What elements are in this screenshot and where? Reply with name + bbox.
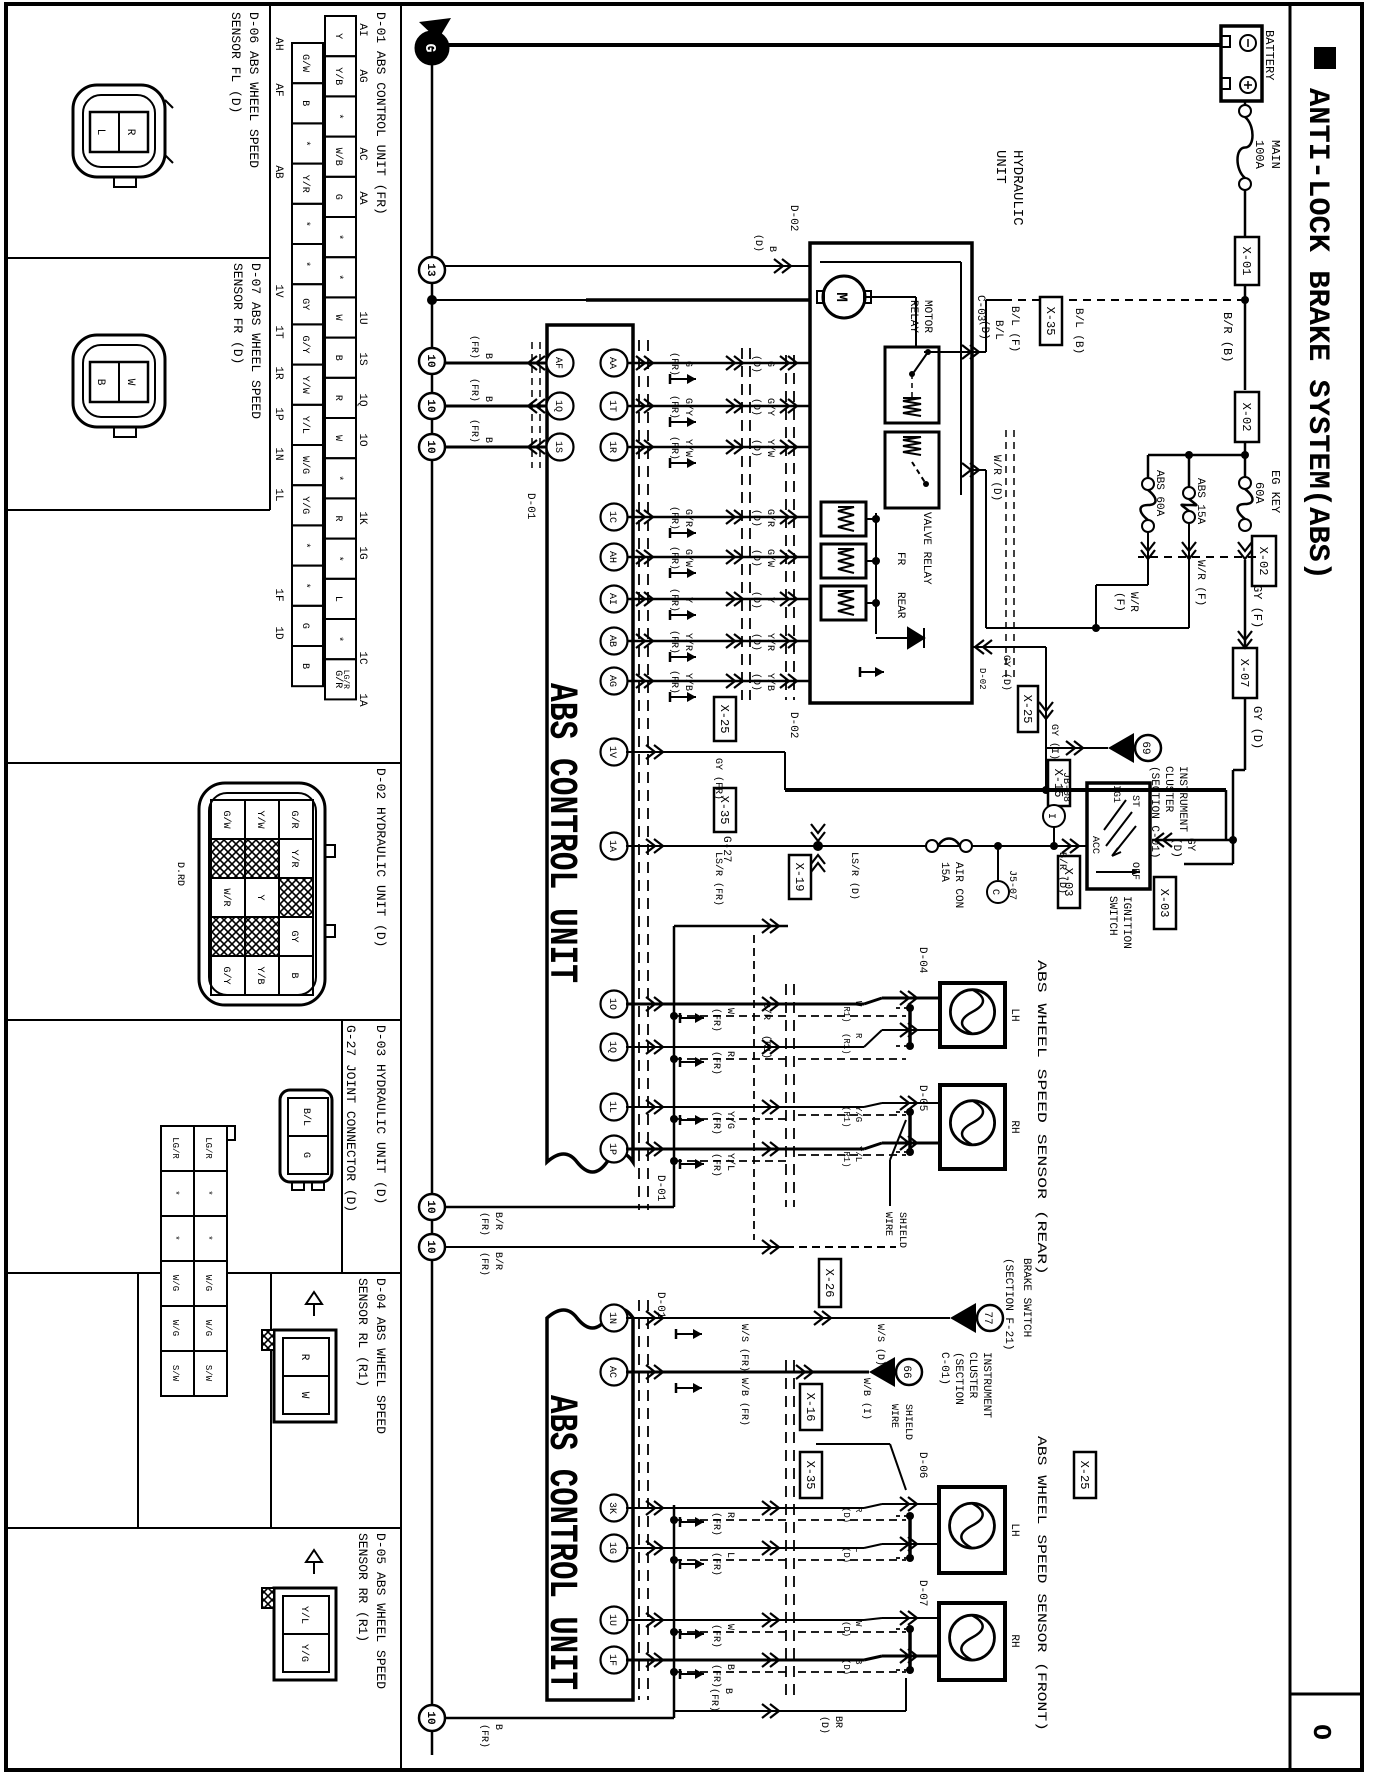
svg-text:SENSOR RR (R1): SENSOR RR (R1) bbox=[355, 1533, 370, 1642]
svg-text:*: * bbox=[170, 1235, 180, 1240]
svg-text:(FR): (FR) bbox=[668, 436, 680, 460]
svg-text:10: 10 bbox=[424, 1240, 436, 1253]
rear sensor RH box bbox=[940, 1085, 1005, 1169]
svg-text:1S: 1S bbox=[356, 352, 368, 366]
shield pair bar rear RH bbox=[908, 1112, 912, 1152]
small arrows front wires bbox=[680, 1521, 704, 1523]
wire Y/R pin AB to hydraulic unit bbox=[626, 640, 810, 642]
svg-text:(FR): (FR) bbox=[710, 1664, 722, 1688]
ABS control unit box 1 bbox=[547, 325, 633, 1172]
svg-text:Y/R: Y/R bbox=[682, 633, 694, 651]
svg-text:ABS WHEEL SPEED SENSOR (REAR): ABS WHEEL SPEED SENSOR (REAR) bbox=[1034, 960, 1049, 1275]
svg-text:B/L (F): B/L (F) bbox=[1008, 306, 1020, 352]
svg-text:X-26: X-26 bbox=[822, 1269, 836, 1298]
svg-text:W/R: W/R bbox=[1127, 592, 1139, 612]
svg-text:77: 77 bbox=[981, 1311, 993, 1324]
svg-text:UNIT: UNIT bbox=[992, 150, 1008, 184]
svg-text:1T: 1T bbox=[606, 400, 617, 412]
svg-text:W/R: W/R bbox=[220, 888, 232, 906]
svg-text:RH: RH bbox=[1008, 1120, 1020, 1133]
svg-text:FR: FR bbox=[894, 552, 906, 566]
B (FR) return from bus circle f bbox=[445, 1717, 674, 1720]
svg-text:1C: 1C bbox=[356, 651, 368, 665]
joint J5-07 bbox=[994, 842, 1002, 850]
svg-text:ABS 60A: ABS 60A bbox=[1153, 470, 1165, 517]
svg-text:AC: AC bbox=[356, 147, 368, 161]
svg-text:AC: AC bbox=[606, 1366, 617, 1378]
connector X-03 upper bbox=[1154, 877, 1176, 929]
dashed rail X-25/X-35 boundary bbox=[749, 348, 751, 700]
svg-text:SENSOR RL (R1): SENSOR RL (R1) bbox=[355, 1278, 370, 1387]
dashed rail (R1) boundary sensors bbox=[793, 984, 795, 1207]
shield drain dashed along 1U bbox=[674, 1631, 790, 1633]
D-06 round connector pictogram bbox=[73, 85, 165, 177]
svg-text:1Q: 1Q bbox=[552, 400, 563, 412]
wire Y/L pin 1P to rear sensor bbox=[601, 1136, 628, 1163]
svg-text:G: G bbox=[682, 361, 693, 367]
svg-text:10: 10 bbox=[424, 354, 436, 367]
svg-text:AB: AB bbox=[272, 165, 284, 179]
svg-text:B: B bbox=[482, 353, 493, 359]
cell divider v=1238 in D-04 cell bbox=[137, 1273, 139, 1528]
svg-text:ABS CONTROL UNIT: ABS CONTROL UNIT bbox=[538, 1395, 583, 1690]
svg-text:D-07 ABS WHEEL SPEED: D-07 ABS WHEEL SPEED bbox=[248, 263, 263, 419]
svg-text:10: 10 bbox=[424, 440, 436, 453]
svg-text:G/W: G/W bbox=[764, 549, 776, 567]
connector X-16 bbox=[800, 1384, 822, 1430]
shield drain upper dashed front bbox=[798, 1519, 906, 1521]
svg-text:C-03: C-03 bbox=[974, 295, 986, 321]
svg-text:ST: ST bbox=[1129, 795, 1140, 807]
section letter box O bbox=[1290, 1693, 1362, 1696]
svg-text:D-04: D-04 bbox=[916, 947, 928, 974]
wire R pin 1Q to rear sensor bbox=[601, 1034, 628, 1061]
svg-text:W/R (D): W/R (D) bbox=[990, 455, 1002, 501]
connector X-19 bbox=[789, 855, 811, 899]
fuse rail junction bbox=[1148, 454, 1245, 457]
svg-text:VALVE RELAY: VALVE RELAY bbox=[920, 512, 932, 585]
svg-text:LG/R: LG/R bbox=[170, 1137, 180, 1159]
svg-text:D-02: D-02 bbox=[977, 668, 987, 690]
wire Y/W pin 1R to hydraulic unit bbox=[626, 446, 810, 448]
svg-text:D-01 ABS CONTROL UNIT (FR): D-01 ABS CONTROL UNIT (FR) bbox=[373, 12, 388, 215]
svg-text:(R1): (R1) bbox=[841, 1001, 851, 1023]
solenoid FR bbox=[821, 502, 866, 536]
svg-text:*: * bbox=[332, 274, 344, 280]
strip divider u=763 bbox=[6, 762, 401, 764]
svg-text:(FR): (FR) bbox=[668, 546, 680, 570]
svg-text:GY (D): GY (D) bbox=[1250, 706, 1264, 749]
svg-text:1F: 1F bbox=[606, 1654, 617, 1666]
svg-text:(FR): (FR) bbox=[478, 1724, 490, 1748]
battery bbox=[1221, 26, 1262, 101]
svg-text:D-01: D-01 bbox=[524, 493, 536, 520]
svg-text:10: 10 bbox=[424, 1711, 436, 1724]
svg-text:X-35: X-35 bbox=[803, 1461, 817, 1490]
svg-text:(SECTION F-21): (SECTION F-21) bbox=[1002, 1258, 1014, 1350]
svg-text:Y/R: Y/R bbox=[299, 175, 311, 193]
connector X-25 front bbox=[1074, 1452, 1096, 1498]
svg-text:L: L bbox=[724, 1552, 735, 1558]
svg-text:1R: 1R bbox=[272, 366, 284, 380]
svg-text:G: G bbox=[764, 361, 775, 367]
main feed from battery to ground bus bbox=[444, 43, 1221, 47]
inner bus lines bbox=[820, 261, 961, 263]
svg-text:R: R bbox=[332, 395, 343, 401]
svg-text:D-06 ABS WHEEL SPEED: D-06 ABS WHEEL SPEED bbox=[246, 12, 261, 168]
svg-text:JB-08: JB-08 bbox=[1060, 772, 1071, 802]
wire W pin 1O to rear sensor bbox=[601, 991, 628, 1018]
ignition switch box bbox=[1087, 783, 1150, 889]
svg-text:Y: Y bbox=[332, 33, 343, 39]
svg-text:LH: LH bbox=[1008, 1523, 1020, 1536]
svg-text:AI: AI bbox=[606, 593, 617, 605]
bus junction circle 10 (c) bbox=[419, 434, 445, 460]
thick GY (D) riser bbox=[785, 788, 1226, 792]
svg-text:*: * bbox=[332, 475, 344, 481]
brake switch triangle 77 bbox=[950, 1303, 976, 1333]
svg-text:ANTI-LOCK BRAKE SYSTEM(ABS): ANTI-LOCK BRAKE SYSTEM(ABS) bbox=[1300, 88, 1334, 580]
svg-text:Y/B: Y/B bbox=[254, 966, 266, 984]
svg-text:I: I bbox=[1045, 813, 1056, 819]
svg-text:X-07: X-07 bbox=[1237, 659, 1251, 688]
svg-text:1L: 1L bbox=[272, 488, 284, 501]
svg-text:(FR): (FR) bbox=[478, 1252, 490, 1276]
svg-text:W: W bbox=[298, 1392, 310, 1399]
svg-text:(R1): (R1) bbox=[841, 1146, 851, 1168]
svg-text:W/S (D): W/S (D) bbox=[874, 1324, 886, 1366]
wire W/R from ABS 15A bbox=[1188, 523, 1190, 628]
svg-text:10: 10 bbox=[424, 399, 436, 412]
svg-text:W/S (FR): W/S (FR) bbox=[738, 1324, 750, 1372]
svg-text:(R1): (R1) bbox=[760, 1035, 772, 1059]
svg-text:Y/W: Y/W bbox=[682, 439, 694, 457]
svg-text:G: G bbox=[300, 1152, 311, 1158]
svg-text:Y: Y bbox=[682, 597, 693, 603]
bus junction dot bbox=[427, 295, 437, 305]
svg-text:B: B bbox=[332, 355, 343, 361]
svg-text:AA: AA bbox=[356, 191, 368, 205]
wire B pin 1S to ground bus bbox=[445, 446, 547, 449]
bus junction circle 10 (f) bbox=[419, 1705, 445, 1731]
svg-text:AI: AI bbox=[356, 23, 368, 36]
svg-text:(D): (D) bbox=[750, 398, 762, 416]
svg-text:1F: 1F bbox=[272, 588, 284, 601]
wire G/Y pin 1T to hydraulic unit bbox=[626, 405, 810, 407]
svg-text:(FR): (FR) bbox=[468, 419, 480, 443]
svg-text:B: B bbox=[766, 246, 777, 252]
wire ABS 60A output bbox=[1147, 532, 1149, 585]
svg-text:(FR): (FR) bbox=[710, 1008, 722, 1032]
connector box X-35 on wires bbox=[714, 788, 736, 832]
svg-text:G/W: G/W bbox=[220, 810, 232, 828]
svg-text:INSTRUMENT: INSTRUMENT bbox=[980, 1352, 992, 1418]
svg-text:*: * bbox=[299, 261, 311, 267]
svg-text:C: C bbox=[989, 889, 1000, 895]
bus junction circle 10 (a) bbox=[419, 348, 445, 374]
svg-text:Y/G: Y/G bbox=[299, 496, 311, 514]
svg-text:D-03 HYDRAULIC UNIT (D): D-03 HYDRAULIC UNIT (D) bbox=[373, 1025, 388, 1204]
svg-text:O: O bbox=[1306, 1724, 1336, 1740]
svg-text:(FR): (FR) bbox=[668, 588, 680, 612]
svg-text:1S: 1S bbox=[552, 441, 563, 453]
wire Y/B pin AG to hydraulic unit bbox=[626, 680, 810, 682]
small arrow bbox=[860, 671, 884, 673]
svg-text:X-02: X-02 bbox=[1239, 403, 1253, 432]
svg-text:D-02 HYDRAULIC UNIT (D): D-02 HYDRAULIC UNIT (D) bbox=[373, 768, 388, 947]
svg-text:1O: 1O bbox=[356, 433, 368, 447]
svg-text:SHIELD: SHIELD bbox=[896, 1212, 907, 1248]
wire Y pin AI to hydraulic unit bbox=[626, 598, 810, 600]
motor M bbox=[823, 276, 865, 318]
solenoid REAR bbox=[821, 586, 866, 620]
svg-text:L: L bbox=[94, 129, 106, 136]
svg-text:1V: 1V bbox=[606, 746, 617, 758]
svg-text:X-01: X-01 bbox=[1239, 247, 1253, 276]
connector X-15 bbox=[1048, 760, 1070, 806]
svg-text:1P: 1P bbox=[272, 407, 284, 421]
svg-text:X-35: X-35 bbox=[1043, 307, 1057, 336]
svg-text:CLUSTER: CLUSTER bbox=[966, 1352, 978, 1399]
diode bbox=[908, 628, 924, 648]
svg-text:W/G: W/G bbox=[170, 1275, 180, 1291]
ground bus line bbox=[431, 58, 434, 1755]
ABS control unit box 2 bbox=[547, 1309, 633, 1700]
svg-text:BRAKE SWITCH: BRAKE SWITCH bbox=[1020, 1258, 1032, 1337]
dashed harness boundary at hydraulic top entries bbox=[1013, 430, 1015, 680]
svg-text:AF: AF bbox=[272, 83, 284, 96]
B/R (R1) return from bus circle e bbox=[445, 1246, 786, 1248]
shield drain upper dashed rear bbox=[798, 1015, 906, 1017]
svg-text:AB: AB bbox=[606, 635, 617, 647]
svg-text:1N: 1N bbox=[606, 1312, 617, 1324]
wire L pin 1G to front sensor bbox=[601, 1535, 628, 1562]
svg-text:1C: 1C bbox=[606, 511, 617, 523]
dashed rail (D) boundary box2 bbox=[793, 1360, 795, 1700]
svg-text:60A: 60A bbox=[1252, 482, 1266, 504]
svg-text:1U: 1U bbox=[606, 1614, 617, 1626]
svg-text:100A: 100A bbox=[1252, 140, 1266, 170]
svg-text:BR: BR bbox=[832, 1716, 843, 1728]
svg-text:(FR): (FR) bbox=[710, 1153, 722, 1177]
svg-text:Y: Y bbox=[254, 894, 265, 900]
svg-text:Y/G: Y/G bbox=[298, 1644, 310, 1662]
front sensor LH box bbox=[939, 1487, 1005, 1573]
svg-text:Y/B: Y/B bbox=[764, 673, 776, 691]
svg-text:R: R bbox=[853, 1033, 863, 1039]
svg-text:(FR): (FR) bbox=[668, 506, 680, 530]
small arrows rear wires bbox=[680, 1017, 704, 1019]
svg-text:AG: AG bbox=[356, 69, 368, 82]
svg-text:(D): (D) bbox=[750, 673, 762, 691]
svg-text:MOTOR: MOTOR bbox=[921, 300, 933, 333]
strip divider u=258 bbox=[6, 257, 270, 259]
svg-text:(R1): (R1) bbox=[841, 1033, 851, 1055]
svg-text:1R: 1R bbox=[606, 441, 617, 453]
svg-text:B/R: B/R bbox=[492, 1212, 504, 1230]
D-01 table row 1 cells bbox=[325, 16, 356, 56]
svg-text:C-01): C-01) bbox=[938, 1352, 950, 1385]
svg-text:W/G: W/G bbox=[299, 456, 311, 474]
valve relay bbox=[885, 432, 939, 508]
svg-text:Y/L: Y/L bbox=[299, 416, 311, 434]
svg-text:(D): (D) bbox=[978, 320, 990, 340]
svg-text:1A: 1A bbox=[606, 840, 617, 852]
svg-text:BATTERY: BATTERY bbox=[1262, 30, 1276, 80]
wire B/L from main feed (dashed) to motor relay bbox=[1241, 296, 1249, 304]
svg-text:(D): (D) bbox=[750, 591, 762, 609]
D-07 round connector pictogram bbox=[73, 335, 165, 427]
svg-text:W: W bbox=[724, 1624, 735, 1630]
svg-text:(FR): (FR) bbox=[710, 1111, 722, 1135]
svg-text:(FR): (FR) bbox=[668, 395, 680, 419]
svg-text:G-27: G-27 bbox=[720, 836, 732, 862]
svg-text:W: W bbox=[124, 379, 136, 386]
svg-text:W/G: W/G bbox=[170, 1320, 180, 1336]
svg-text:(D): (D) bbox=[750, 549, 762, 567]
svg-text:X-02: X-02 bbox=[1256, 547, 1270, 576]
title divider line bbox=[1289, 4, 1292, 1770]
front sensor RH box bbox=[939, 1603, 1005, 1680]
hydraulic unit box bbox=[810, 243, 972, 703]
svg-text:AF: AF bbox=[552, 357, 563, 369]
svg-text:B: B bbox=[853, 1659, 863, 1665]
svg-text:*: * bbox=[332, 234, 344, 240]
svg-text:G/W: G/W bbox=[299, 54, 311, 72]
strip divider u=510 bbox=[6, 509, 270, 511]
svg-text:1Q: 1Q bbox=[356, 393, 368, 407]
svg-text:W/G: W/G bbox=[203, 1275, 213, 1291]
D-02 connector pictogram grid bbox=[199, 783, 325, 1005]
D-01 table row 2 cells bbox=[292, 43, 323, 83]
svg-text:G: G bbox=[299, 623, 310, 629]
instrument cluster triangle 69 bbox=[1108, 733, 1134, 763]
svg-text:AIR CON: AIR CON bbox=[952, 862, 964, 908]
connector X-07 bbox=[1233, 648, 1257, 698]
svg-text:B/R: B/R bbox=[760, 1002, 772, 1020]
svg-text:GY (FR): GY (FR) bbox=[712, 758, 724, 800]
svg-text:3K: 3K bbox=[606, 1502, 617, 1514]
svg-text:(D): (D) bbox=[750, 355, 762, 373]
svg-text:D-01: D-01 bbox=[654, 1175, 666, 1202]
cell divider v=1105 in D-04 cell bbox=[270, 1273, 272, 1528]
strip divider u=1020 bbox=[6, 1019, 401, 1021]
svg-text:L: L bbox=[853, 1547, 863, 1552]
svg-text:B/L: B/L bbox=[300, 1108, 312, 1126]
svg-text:MAIN: MAIN bbox=[1268, 140, 1282, 169]
wire G/R pin 1C to hydraulic unit bbox=[626, 516, 810, 518]
svg-text:LG/R: LG/R bbox=[203, 1137, 213, 1159]
svg-text:AG: AG bbox=[606, 675, 617, 687]
svg-text:R: R bbox=[724, 1512, 735, 1518]
svg-text:R: R bbox=[298, 1354, 310, 1361]
svg-text:G/R: G/R bbox=[288, 810, 300, 828]
svg-text:W: W bbox=[853, 1621, 863, 1627]
svg-text:WIRE: WIRE bbox=[882, 1212, 893, 1236]
connector box X-25 on wires bbox=[714, 697, 736, 741]
svg-text:CLUSTER: CLUSTER bbox=[1162, 766, 1174, 813]
svg-text:SHIELD: SHIELD bbox=[902, 1404, 913, 1440]
svg-text:ACC: ACC bbox=[1089, 836, 1100, 854]
svg-text:1G: 1G bbox=[356, 546, 368, 559]
svg-text:X-25: X-25 bbox=[1020, 695, 1034, 724]
harness dashed rail along box1 bbox=[647, 340, 649, 1210]
svg-text:(F): (F) bbox=[1113, 592, 1125, 612]
svg-text:B: B bbox=[288, 972, 299, 978]
svg-text:Y/G: Y/G bbox=[724, 1111, 736, 1129]
svg-text:X-03: X-03 bbox=[1157, 889, 1171, 918]
svg-text:(FR): (FR) bbox=[710, 1051, 722, 1075]
shield drain dashed along 1P bbox=[674, 1160, 790, 1162]
connector X-35 front bbox=[800, 1452, 822, 1498]
svg-text:W: W bbox=[853, 1001, 863, 1007]
svg-text:13: 13 bbox=[424, 263, 436, 277]
svg-text:M: M bbox=[832, 292, 850, 302]
svg-text:ABS CONTROL UNIT: ABS CONTROL UNIT bbox=[538, 683, 583, 983]
fuse AIR CON 15A bbox=[926, 840, 938, 852]
svg-text:*: * bbox=[332, 113, 344, 119]
svg-text:Y/W: Y/W bbox=[764, 439, 776, 457]
svg-text:L: L bbox=[332, 596, 343, 602]
svg-text:Y/W: Y/W bbox=[299, 376, 311, 394]
wire G pin AA to hydraulic unit bbox=[626, 362, 810, 364]
shield drain dashed along 1L bbox=[674, 1118, 790, 1120]
svg-text:*: * bbox=[299, 542, 311, 548]
svg-text:W: W bbox=[332, 314, 343, 320]
svg-text:S/W: S/W bbox=[170, 1365, 180, 1382]
svg-text:G/Y: G/Y bbox=[220, 966, 232, 984]
svg-text:B: B bbox=[299, 100, 310, 106]
fuse MAIN 100A bbox=[1244, 101, 1247, 107]
solenoid bus bbox=[875, 513, 877, 634]
svg-text:1G: 1G bbox=[606, 1542, 617, 1554]
svg-text:INSTRUMENT: INSTRUMENT bbox=[1176, 766, 1188, 832]
svg-text:X-25: X-25 bbox=[1077, 1461, 1091, 1490]
motor relay bbox=[885, 347, 939, 423]
svg-text:GY (I): GY (I) bbox=[1048, 724, 1060, 760]
shield wire stem front bbox=[816, 1443, 890, 1445]
connector X-25 on cluster branch bbox=[1018, 686, 1038, 732]
connector X-35 bbox=[1040, 297, 1062, 345]
svg-text:*: * bbox=[332, 636, 344, 642]
svg-text:1O: 1O bbox=[606, 998, 617, 1010]
G-27 joint junction bbox=[813, 841, 823, 851]
wire R pin 3K to front sensor bbox=[601, 1495, 628, 1522]
shield drain dashed along 3K bbox=[674, 1519, 790, 1521]
shield pair bar front LH bbox=[908, 1516, 912, 1558]
svg-text:AH: AH bbox=[606, 551, 617, 563]
svg-text:*: * bbox=[203, 1235, 213, 1240]
svg-text:D-02: D-02 bbox=[787, 205, 799, 231]
svg-text:B: B bbox=[724, 1664, 735, 1670]
svg-text:W/B (I): W/B (I) bbox=[860, 1378, 872, 1420]
svg-text:ABS 15A: ABS 15A bbox=[1194, 478, 1206, 525]
svg-text:B: B bbox=[722, 1688, 733, 1694]
svg-text:AA: AA bbox=[606, 357, 617, 369]
svg-text:B/R (B): B/R (B) bbox=[1220, 312, 1234, 362]
dashed rail along box1 bottom pins bbox=[539, 342, 541, 468]
svg-text:(FR): (FR) bbox=[708, 1688, 720, 1712]
wire GY (D) from valve relay to cluster bbox=[972, 646, 1046, 648]
svg-text:(FR): (FR) bbox=[710, 1624, 722, 1648]
svg-text:G/Y: G/Y bbox=[682, 398, 694, 416]
svg-text:Y/R: Y/R bbox=[764, 633, 776, 651]
svg-text:W: W bbox=[332, 435, 343, 441]
svg-text:HYDRAULIC: HYDRAULIC bbox=[1009, 150, 1025, 226]
svg-text:(D): (D) bbox=[750, 509, 762, 527]
solenoid (middle) bbox=[821, 544, 866, 578]
svg-text:J5-07: J5-07 bbox=[1006, 870, 1017, 900]
